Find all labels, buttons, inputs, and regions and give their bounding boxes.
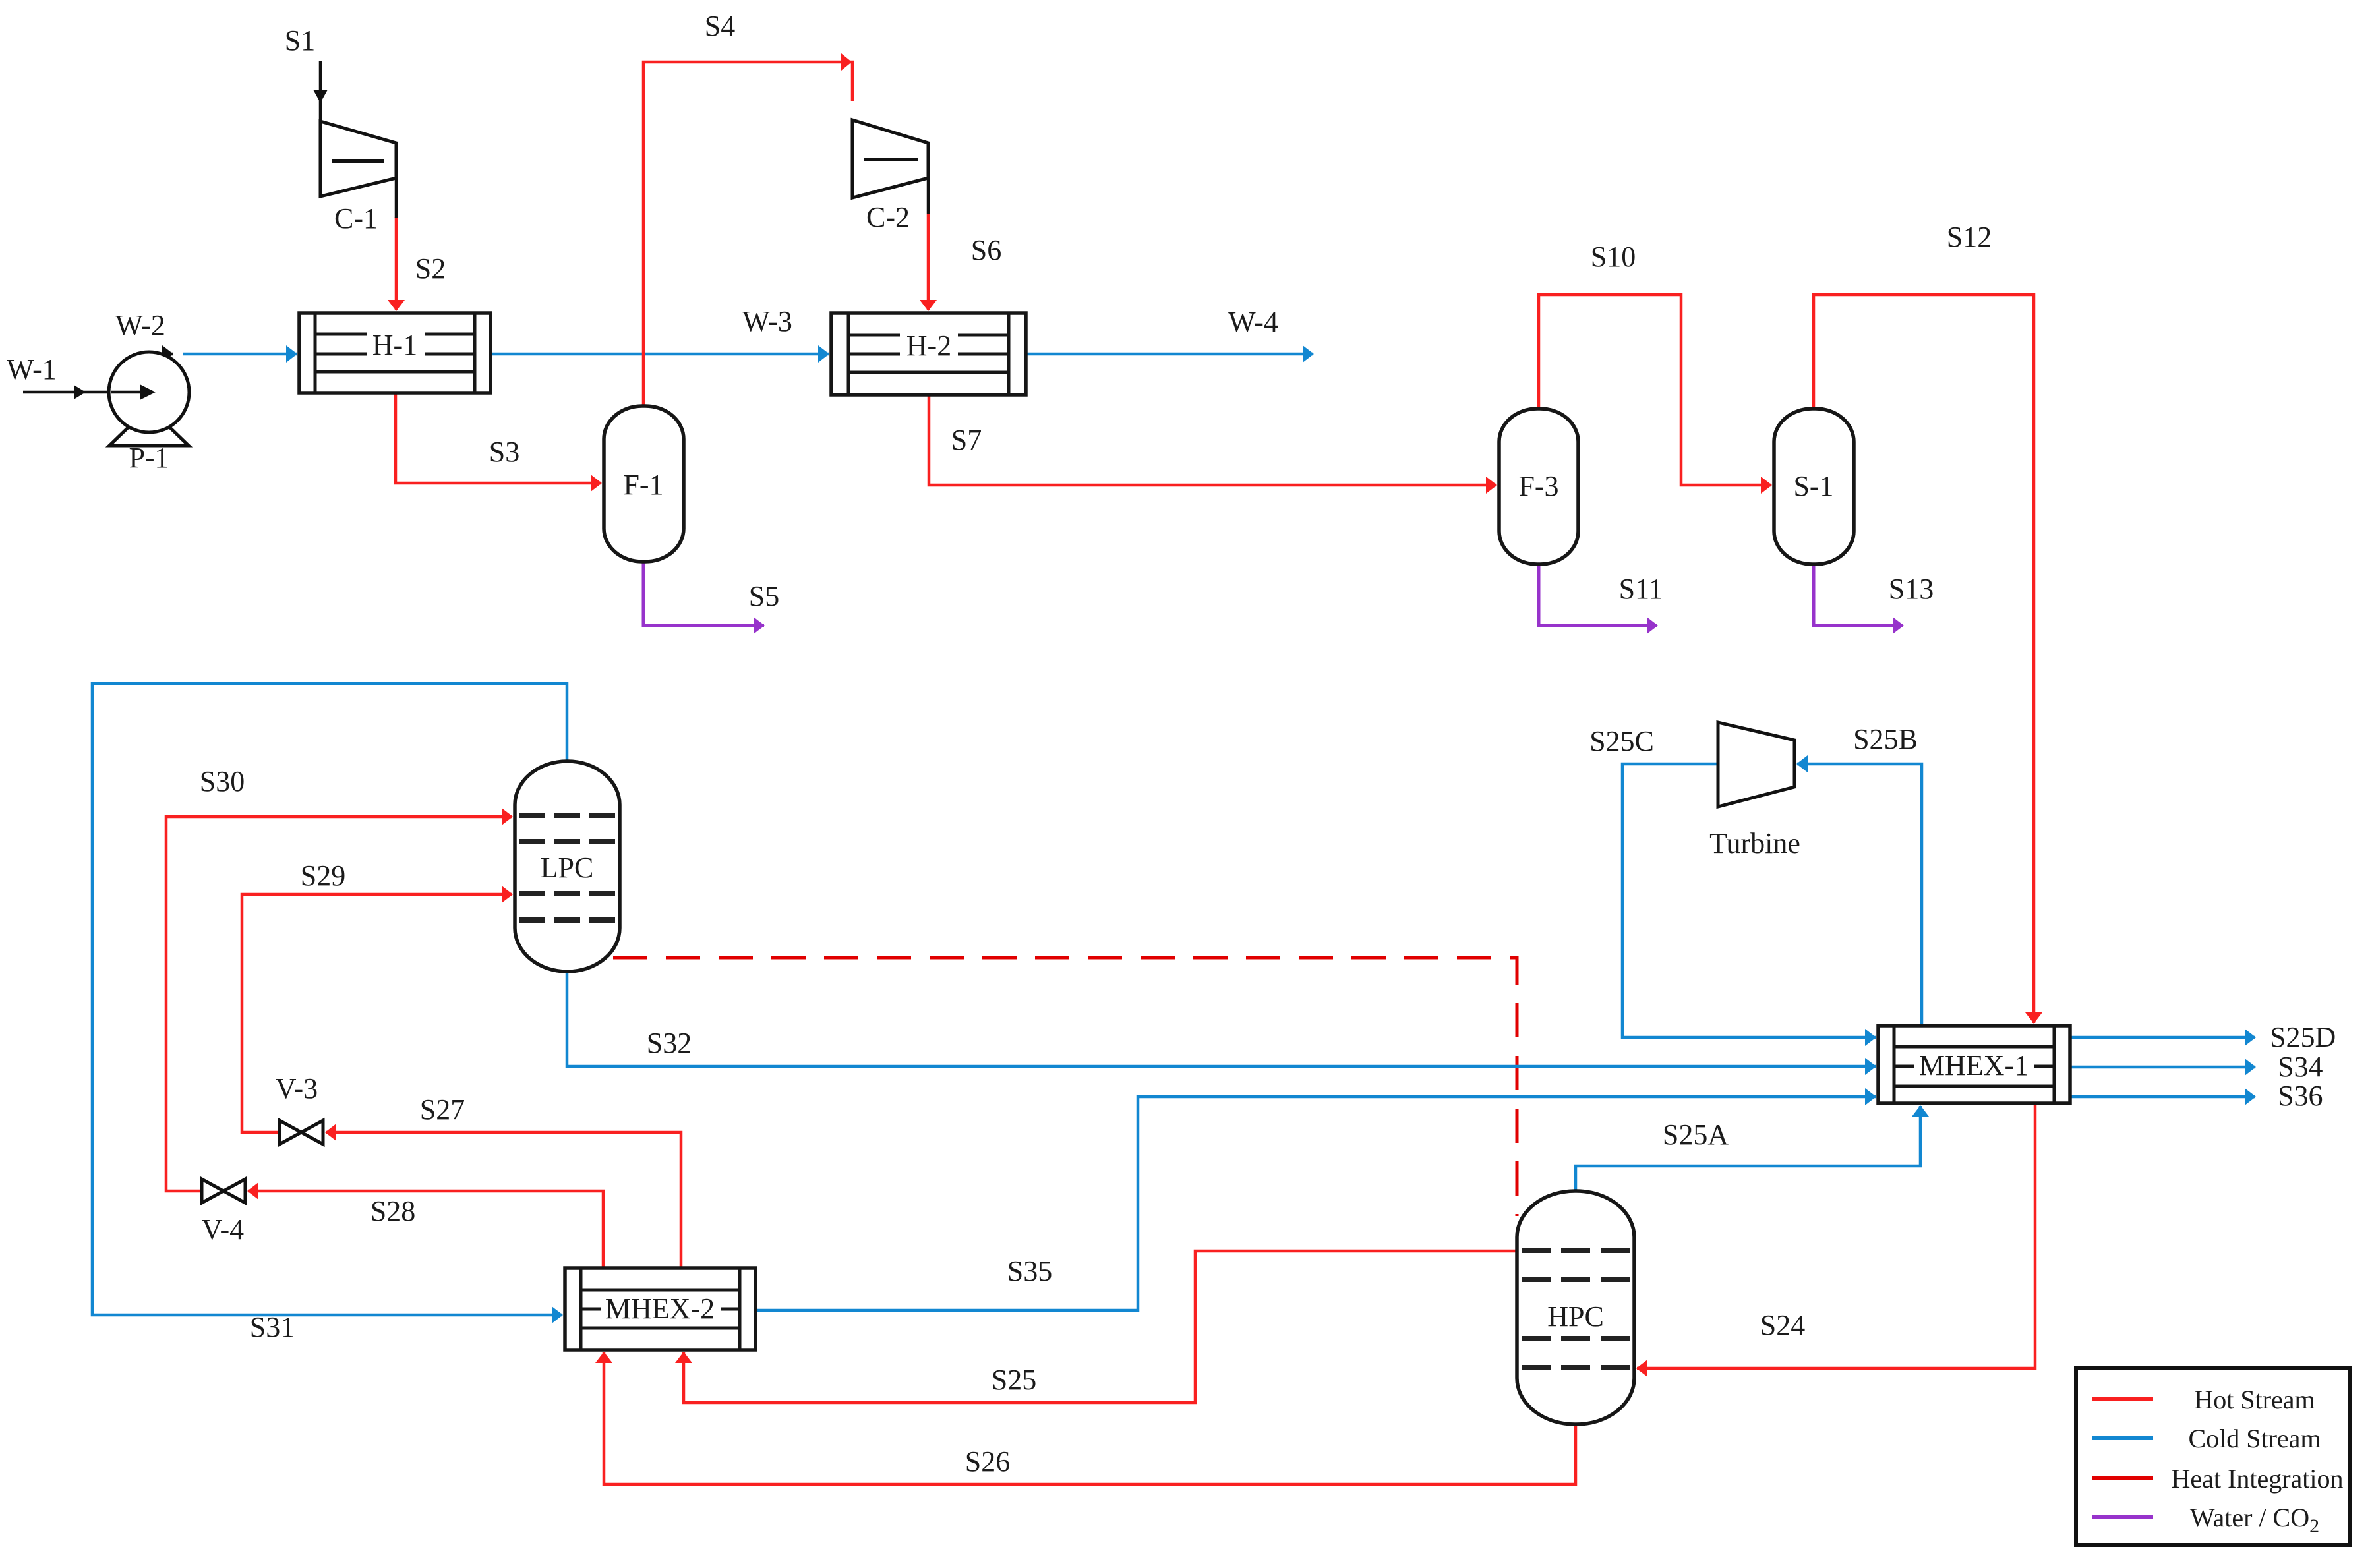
column LPC (515, 761, 620, 972)
svg-text:H-1: H-1 (372, 329, 417, 361)
svg-text:S13: S13 (1889, 573, 1934, 605)
svg-text:Turbine: Turbine (1709, 827, 1800, 859)
wire S28 hot stream MHEX-2 to V-4 (248, 1191, 603, 1268)
svg-text:S26: S26 (965, 1445, 1010, 1478)
svg-text:P-1: P-1 (129, 442, 169, 474)
wire S25D cold outlet (2070, 1036, 2255, 1039)
vessel F-3 (1499, 409, 1578, 564)
svg-text:S25: S25 (992, 1364, 1036, 1396)
svg-text:W-4: W-4 (1228, 306, 1278, 338)
wire S11 water outlet F-3 (1539, 564, 1657, 625)
svg-text:H-2: H-2 (906, 330, 951, 362)
svg-text:S5: S5 (749, 580, 779, 612)
wire S27 hot stream MHEX-2 to V-3 (326, 1132, 681, 1268)
wire S35 cold stream MHEX-2 to MHEX-1 (755, 1097, 1876, 1310)
wire S29 hot stream V-3 to LPC (242, 894, 512, 1132)
wire C-1 outlet stub (395, 178, 398, 218)
wire S31 cold loop from LPC top to MHEX-2 (92, 683, 567, 1315)
svg-text:S25C: S25C (1589, 725, 1654, 757)
svg-text:C-2: C-2 (866, 201, 910, 233)
wire S32 cold stream LPC bottom to MHEX-1 (567, 972, 1876, 1066)
svg-text:S24: S24 (1760, 1309, 1805, 1341)
svg-text:S3: S3 (489, 436, 519, 468)
svg-text:S32: S32 (647, 1027, 692, 1059)
wire S25B cold stream MHEX-1 top to turbine (1797, 764, 1922, 1026)
wire S13 water outlet S-1 (1814, 564, 1903, 625)
svg-text:Hot Stream: Hot Stream (2194, 1385, 2315, 1414)
svg-text:S11: S11 (1619, 573, 1663, 605)
svg-text:S31: S31 (250, 1311, 295, 1343)
wire heat-integration dashed LPC to HPC (613, 958, 1517, 1216)
svg-text:S30: S30 (200, 765, 245, 798)
svg-text:S35: S35 (1007, 1255, 1052, 1287)
wire S25A cold stream HPC top to MHEX-1 bottom (1576, 1106, 1920, 1191)
legend box (2076, 1368, 2350, 1545)
svg-text:V-4: V-4 (202, 1213, 244, 1246)
compressor C-1 (320, 121, 396, 196)
wire S26 hot stream HPC bottom to MHEX-2 (604, 1352, 1576, 1484)
svg-text:S36: S36 (2278, 1080, 2323, 1112)
svg-text:S4: S4 (705, 10, 735, 42)
wire S6 hot stream C-2 to H-2 (927, 214, 930, 310)
arrowhead pump internal (111, 391, 140, 394)
svg-text:Water / CO2: Water / CO2 (2190, 1503, 2319, 1537)
column HPC (1517, 1191, 1634, 1424)
svg-text:S27: S27 (420, 1093, 465, 1126)
svg-text:S-1: S-1 (1793, 470, 1833, 502)
wire S1 feed into C-1 (319, 61, 322, 121)
wire S36 cold outlet (2070, 1095, 2255, 1099)
wire S7 hot stream H-2 to F-3 (929, 395, 1496, 485)
svg-text:W-3: W-3 (742, 305, 792, 337)
legend cold stream (2092, 1436, 2153, 1440)
vessel F-1 (604, 406, 684, 562)
svg-text:LPC: LPC (541, 852, 594, 884)
svg-text:S1: S1 (285, 24, 315, 57)
svg-text:HPC: HPC (1547, 1300, 1604, 1333)
wire S4 hot stream F-1 to C-2 (643, 62, 852, 406)
svg-text:S10: S10 (1591, 241, 1636, 273)
heat exchanger MHEX-2 (565, 1268, 755, 1350)
svg-text:S28: S28 (370, 1195, 415, 1227)
wire W-4 cold stream (1026, 353, 1313, 356)
svg-text:S25B: S25B (1853, 723, 1918, 755)
wire pump outlet (152, 353, 173, 356)
svg-text:W-1: W-1 (7, 353, 57, 386)
trays LPC (519, 815, 616, 920)
svg-text:Heat Integration: Heat Integration (2172, 1464, 2344, 1494)
svg-text:Cold Stream: Cold Stream (2188, 1424, 2321, 1453)
wire S25 hot stream HPC to MHEX-2 (684, 1251, 1517, 1403)
heat exchanger H-2 (831, 313, 1026, 395)
wire S30 hot stream V-4 to LPC (166, 817, 512, 1191)
legend hot stream (2092, 1397, 2153, 1401)
wire W-3 cold stream (490, 353, 829, 356)
svg-text:V-3: V-3 (276, 1072, 318, 1105)
svg-text:S29: S29 (301, 859, 345, 892)
svg-text:S25D: S25D (2270, 1021, 2336, 1053)
heat exchanger MHEX-1 (1878, 1026, 2070, 1103)
svg-text:MHEX-1: MHEX-1 (1919, 1049, 2029, 1082)
trays HPC (1522, 1250, 1630, 1368)
svg-text:S25A: S25A (1663, 1118, 1729, 1151)
heat exchanger H-1 (299, 313, 490, 393)
legend heat integration (2092, 1476, 2153, 1480)
wire S24 hot stream MHEX-1 to HPC (1637, 1103, 2035, 1368)
wire S3 hot stream H-1 to F-1 (396, 393, 601, 483)
wire S25C cold stream turbine to MHEX-1 (1622, 764, 1876, 1037)
valve V-3 (280, 1120, 323, 1144)
arrowhead W-1 mid (74, 385, 86, 399)
svg-text:S7: S7 (951, 424, 982, 456)
wire C-2 outlet stub (927, 178, 930, 214)
arrowhead S4 (841, 53, 852, 71)
svg-text:F-1: F-1 (623, 469, 663, 501)
compressor C-2 (852, 120, 928, 198)
svg-text:S6: S6 (971, 234, 1001, 266)
legend water co2 (2092, 1515, 2153, 1519)
svg-text:F-3: F-3 (1518, 470, 1558, 502)
svg-text:MHEX-2: MHEX-2 (605, 1292, 715, 1325)
turbine (1718, 722, 1794, 807)
wire W-1 feed into pump (23, 391, 150, 394)
vessel S-1 (1774, 409, 1854, 564)
svg-text:C-1: C-1 (334, 202, 378, 235)
svg-text:S2: S2 (415, 252, 446, 285)
arrowhead S1 mid (313, 90, 328, 103)
wire W-2 cold stream (183, 353, 297, 356)
wire S10 hot stream F-3 to S-1 (1539, 295, 1771, 485)
svg-text:S12: S12 (1947, 221, 1992, 253)
wire S12 hot stream S-1 to MHEX-1 (1814, 295, 2034, 1023)
wire S34 cold outlet (2070, 1066, 2255, 1069)
pump P-1 (109, 352, 189, 446)
svg-text:W-2: W-2 (115, 309, 165, 341)
wire S5 water outlet F-1 (643, 562, 764, 625)
wire S2 hot stream C-1 to H-1 (395, 217, 398, 310)
svg-text:S34: S34 (2278, 1051, 2323, 1083)
valve V-4 (202, 1179, 245, 1203)
